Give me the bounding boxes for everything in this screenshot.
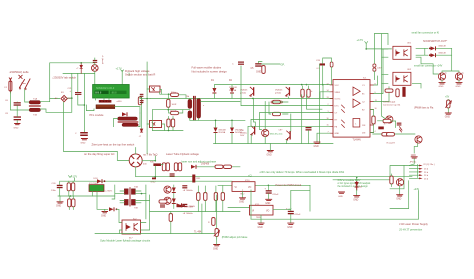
optocoupler IC2 <box>122 219 141 240</box>
wire switch down to T1A <box>25 90 30 103</box>
wire y134 long <box>373 133 415 135</box>
svg-text:GND: GND <box>287 227 292 229</box>
optocoupler OK2 <box>393 69 412 85</box>
wire rail y120.3 <box>190 119 245 121</box>
ground laser section <box>267 151 274 157</box>
transistor Q4 bar <box>279 129 291 140</box>
junction B2 right <box>155 160 157 162</box>
svg-text:JS-HYJT prevention: JS-HYJT prevention <box>399 227 423 231</box>
wire fuse down to T1B <box>10 92 29 110</box>
svg-text:uF30: uF30 <box>117 101 123 103</box>
transformer T3 coils <box>124 186 138 207</box>
junction +17V <box>365 48 367 50</box>
transformer T2A coil <box>118 117 138 120</box>
svg-text:JP2/4x: JP2/4x <box>410 162 418 164</box>
wire x155.3 stub <box>155 156 163 177</box>
fuse F1 <box>5 78 12 93</box>
wire x141.5 vertical <box>141 97 143 129</box>
svg-text:GND: GND <box>265 203 270 205</box>
svg-text:+B 700kHz: +B 700kHz <box>183 190 193 192</box>
ground T5 <box>396 186 403 201</box>
transistor Q3b circle <box>262 102 269 144</box>
junction rail <box>155 176 157 178</box>
svg-text:Power for PWM circuit: Power for PWM circuit <box>276 183 302 187</box>
transistor Q10 <box>386 116 393 123</box>
wire pin5 <box>260 113 331 130</box>
LCD header bar <box>99 100 122 103</box>
svg-text:(PWM adjust pcb fakse: (PWM adjust pcb fakse <box>222 236 248 239</box>
wire lamp chain <box>94 58 96 85</box>
capacitor zener top <box>397 123 402 132</box>
bridge B2 circle <box>129 154 142 167</box>
resistor R33 <box>215 165 223 168</box>
svg-text:DTC: DTC <box>335 106 340 108</box>
ground IC1 <box>314 142 321 148</box>
svg-text:Laser Tube Flyback voltage: Laser Tube Flyback voltage <box>166 152 199 156</box>
wire y109.7 <box>152 109 189 111</box>
power resistor small <box>378 127 384 130</box>
svg-text:1N4148: 1N4148 <box>438 46 446 48</box>
svg-text:470uF: 470uF <box>294 214 301 216</box>
resistor right small <box>208 218 215 226</box>
capacitor C6 <box>5 100 21 110</box>
svg-text:GND: GND <box>335 133 340 135</box>
wire rail y181.2 <box>60 180 232 182</box>
resistor pair y134 <box>382 133 396 145</box>
wire box verticals <box>92 192 108 210</box>
ground IC10 <box>239 191 246 203</box>
wire x374.4 vertical <box>374 34 388 64</box>
resistor pair lower driver <box>167 117 175 131</box>
transistor Q3a bar <box>251 126 256 135</box>
svg-text:GND: GND <box>56 206 61 208</box>
capacitor C8 <box>5 110 21 123</box>
svg-text:GND: GND <box>338 196 343 198</box>
wire B2 right <box>142 160 155 162</box>
capacitor near Q5 <box>182 185 187 188</box>
pot PWM adjust <box>214 229 220 237</box>
wire x251 vertical <box>250 190 252 219</box>
flyback T4 core <box>194 97 196 121</box>
wire rail y84.6 to pin1 <box>306 84 330 86</box>
regulator IC10 box <box>232 180 255 196</box>
transistor Q11 <box>415 136 422 143</box>
wire gnd stub <box>59 196 61 202</box>
svg-text::88.8: :88.8 <box>111 92 117 95</box>
svg-text:SDM1602 LCD-0: SDM1602 LCD-0 <box>96 87 115 90</box>
svg-text:PFL module: PFL module <box>90 113 104 117</box>
lamp LA1 <box>92 65 99 72</box>
transistor Q1 box <box>150 86 161 92</box>
svg-text:3.3V on modular 250V: 3.3V on modular 250V <box>338 179 361 182</box>
resistor row RA <box>197 193 200 201</box>
svg-text:1N4148: 1N4148 <box>438 52 446 54</box>
wire x145.9 vertical <box>145 185 147 219</box>
svg-text:GP,: GP, <box>281 63 285 66</box>
ground Q8 <box>439 80 446 88</box>
wire x140 top <box>139 97 141 99</box>
wire rail y185.3 <box>218 184 310 186</box>
svg-text:GND: GND <box>456 86 461 88</box>
svg-text:1N4005: 1N4005 <box>275 90 283 92</box>
wire x149.6 vertical <box>149 195 151 212</box>
wire bridge minus down <box>63 102 65 151</box>
resistor horizontal R12 <box>273 112 281 115</box>
wire verticals right cluster <box>302 64 323 144</box>
diode D18 <box>94 178 106 183</box>
svg-text:small fan connector +24V: small fan connector +24V <box>414 65 443 68</box>
capacitor pair on x141.5 lower <box>140 100 144 103</box>
transformer T1B <box>29 108 40 116</box>
junction y196 <box>70 195 72 197</box>
junction y109.7 <box>168 109 170 111</box>
wire pin8 to gnd <box>317 133 330 142</box>
resistor pair near R30 <box>162 163 169 171</box>
wire B2 top <box>135 148 137 154</box>
capacitor C26 <box>316 60 325 70</box>
svg-text:Ziiret pre-heat on the top fin: Ziiret pre-heat on the top fine switch <box>92 142 135 146</box>
IC1 pin labels <box>335 85 366 135</box>
transformer T2 core <box>118 121 138 122</box>
svg-text:Switch section and batt R: Switch section and batt R <box>125 73 155 77</box>
wire upper rail y84.6 <box>214 84 306 86</box>
svg-text:GND: GND <box>14 127 19 129</box>
wire diode joins <box>425 48 459 73</box>
resistor horizontal R11 <box>271 100 283 103</box>
transformer T2B coil <box>122 123 138 126</box>
svg-text:VREF: VREF <box>335 92 341 94</box>
svg-text:OUTC: OUTC <box>335 99 341 101</box>
wire pin C1 up <box>374 49 390 102</box>
junction dots y120.3 <box>215 120 217 122</box>
wire long vertical x147 <box>146 62 148 154</box>
wire pin4 long <box>241 98 330 105</box>
LCD module <box>93 85 130 99</box>
svg-text:small fan connector or Kl: small fan connector or Kl <box>412 31 440 34</box>
wire T3 right pins <box>135 191 149 203</box>
wire C30 stubs <box>59 181 61 196</box>
resistor R30 power <box>150 162 161 167</box>
svg-text:T1B: T1B <box>33 115 38 117</box>
svg-text:2kV/3A: 2kV/3A <box>218 131 225 134</box>
svg-text:GND: GND <box>314 146 319 148</box>
svg-text:SOCRSWITCH-OUT*: SOCRSWITCH-OUT* <box>423 40 447 43</box>
op-amp IC1 body <box>333 80 370 138</box>
svg-text:+24V: +24V <box>414 188 420 191</box>
wire T3 left pins <box>112 185 124 203</box>
resistor R32 power <box>177 205 194 209</box>
wire +17V to OK1 <box>366 44 391 49</box>
svg-text:GND: GND <box>258 227 263 229</box>
wire PFL left drop <box>86 105 94 111</box>
SECTION-A AC input <box>5 62 95 151</box>
resistor R31 power vertical <box>192 175 201 183</box>
junction x84.4 y105 <box>84 104 86 106</box>
wire pin2 <box>320 92 330 99</box>
SECTION-E left 7805 <box>51 175 115 210</box>
wire small cluster <box>171 195 217 239</box>
wire rail y101.5 <box>201 101 240 103</box>
SECTION-F bottom right power <box>218 155 435 231</box>
junction T3 right <box>141 193 143 195</box>
capacitor lamp top <box>93 60 97 63</box>
diode chain right of Q5 <box>172 185 176 209</box>
wire Q1 pins <box>147 89 171 94</box>
wire opto pins <box>120 212 150 234</box>
label +17V <box>116 67 124 72</box>
svg-text:pOkde: pOkde <box>275 93 282 95</box>
wire rail y219.2 <box>251 218 418 220</box>
svg-text:on the day filing super AC: on the day filing super AC <box>84 152 115 156</box>
wire resistor row tops <box>198 186 223 212</box>
transistor Q5 <box>164 186 171 193</box>
resistor pair lower <box>68 196 75 210</box>
wire pin7 <box>248 126 330 143</box>
wire C5 to GP <box>258 62 280 65</box>
wire IC11 out <box>273 185 310 211</box>
svg-text:GND: GND <box>445 117 450 119</box>
svg-text:Full wave rectifier diodes: Full wave rectifier diodes <box>192 66 222 70</box>
svg-text:TL494N: TL494N <box>353 140 362 142</box>
svg-text:GND: GND <box>81 142 86 144</box>
wire rail y98.5 start <box>140 98 150 100</box>
svg-text:VCC: VCC <box>335 85 340 87</box>
IC1 left pin stubs <box>330 85 333 133</box>
connector X1 pins <box>409 162 434 181</box>
wire C21 bottom <box>78 95 85 105</box>
svg-text:the included in system design: the included in system design <box>338 185 369 188</box>
resistor right of IC <box>370 110 375 133</box>
SECTION-C flyback and rectifier <box>139 62 334 157</box>
wire DC minus to B2 <box>64 151 130 160</box>
svg-text:10: 10 <box>375 108 377 110</box>
resistor left of T5 <box>390 174 393 187</box>
svg-text:470uF: 470uF <box>272 194 279 196</box>
wire pot to gnd <box>216 237 218 245</box>
resistor vertical 100R <box>167 94 177 110</box>
svg-text:GND: GND <box>151 181 156 183</box>
svg-text:Connector top G4: Connector top G4 <box>383 104 401 107</box>
capacitor near Q6 <box>182 204 187 207</box>
diode D1 <box>211 80 216 98</box>
wire left bus <box>382 34 389 119</box>
resistor vertical small <box>169 214 172 222</box>
ground Q9 <box>456 80 463 88</box>
resistor near C26 <box>330 62 333 67</box>
ground pot <box>445 113 452 119</box>
SECTION-B LCD and PFL <box>75 55 155 156</box>
junction x147 y98.5 <box>146 98 148 100</box>
svg-text:Opto Module Laser flyback pack: Opto Module Laser flyback package circui… <box>100 239 151 243</box>
diode DF2 <box>416 52 452 57</box>
svg-text:GND: GND <box>213 248 218 250</box>
svg-text:13: 13 <box>327 97 329 99</box>
label C10 <box>240 130 248 137</box>
svg-text:+C): +C) <box>248 176 252 178</box>
power resistor dark <box>402 87 405 97</box>
label +17V above IC <box>357 38 368 44</box>
svg-text:VI: VI <box>235 187 238 189</box>
ground below C8 <box>14 124 21 130</box>
resistor small mid <box>396 89 399 97</box>
wire R12 link <box>269 102 288 114</box>
resistor near C5 <box>262 66 265 74</box>
capacitor small x241 <box>232 62 244 66</box>
capacitor C30 <box>51 183 63 192</box>
wire y166.8 <box>197 166 240 168</box>
resistor Feedb <box>169 110 183 115</box>
IC1 arrows left <box>342 105 345 128</box>
IC1 right pin stubs <box>370 85 374 133</box>
wire rail y233.5 <box>95 233 217 235</box>
flyback T4 secondary coil <box>197 99 201 119</box>
flyback T4 primary coil 1 <box>188 99 192 108</box>
wire C21 top <box>77 73 79 92</box>
IC1 flip flop box <box>353 119 360 128</box>
resistor pair above IC <box>373 64 383 71</box>
gnd tick on rail <box>151 178 157 184</box>
ground below C big <box>81 139 88 145</box>
svg-text:T3A: T3A <box>134 186 138 189</box>
svg-text:C-DC(3C)(2): C-DC(3C)(2) <box>383 101 396 103</box>
ground C13 <box>265 194 272 205</box>
svg-text:GND: GND <box>239 202 244 204</box>
wire Q2 pins <box>147 124 164 131</box>
svg-text:GND: GND <box>411 155 416 157</box>
wire LCD verticals <box>96 98 110 100</box>
junction diode top <box>80 62 82 64</box>
wire pin6 <box>251 119 330 126</box>
ground small mid right <box>338 192 345 198</box>
diode D2 <box>229 80 234 98</box>
svg-text:Flyback high voltage: Flyback high voltage <box>125 69 150 73</box>
svg-text:GND: GND <box>267 154 272 156</box>
svg-text:or AC types ignore FAN readjus: or AC types ignore FAN readjust <box>338 182 371 185</box>
transistor Q2 box <box>150 121 162 128</box>
svg-text:(PWM fans to Fla: (PWM fans to Fla <box>414 107 434 110</box>
svg-text:VO: VO <box>266 210 270 212</box>
svg-text:100R: 100R <box>172 104 177 106</box>
wire x84.4 vertical <box>83 73 85 132</box>
resistor R near LCD right <box>138 97 144 105</box>
svg-text:+L 78S05: +L 78S05 <box>186 206 196 208</box>
resistor R34 <box>224 165 232 168</box>
wire PFL right to x140 <box>115 107 140 113</box>
transistor Q5a bar <box>240 87 254 96</box>
capacitor C13 <box>265 185 280 196</box>
switch S1 <box>19 75 30 90</box>
svg-text:↓230/50Hz} kefle: ↓230/50Hz} kefle <box>9 70 30 74</box>
wire Q3a <box>251 98 255 143</box>
optocoupler OK1 <box>393 43 412 60</box>
transistor Q9 <box>455 73 464 81</box>
transformer T1 core <box>29 105 40 106</box>
PFL module bar <box>96 105 115 109</box>
junction x71.8 <box>71 97 73 99</box>
svg-text:+5V: +5V <box>445 97 450 99</box>
wire T1A to bridge <box>40 98 59 101</box>
wire resistor to IC top <box>373 71 375 79</box>
svg-text:+B 700kHz: +B 700kHz <box>183 213 193 215</box>
diode DF1 <box>416 46 452 51</box>
svg-text:laser non anti adjust purchase: laser non anti adjust purchase <box>182 159 217 163</box>
regulator IC9 green box <box>89 185 104 192</box>
SECTION-G TL494 <box>241 34 392 148</box>
capacitor small mid <box>170 173 175 176</box>
svg-text:2kV/3A: 2kV/3A <box>229 89 237 92</box>
resistor loop top <box>378 119 396 127</box>
capacitor mid cluster <box>160 205 165 208</box>
wire vertical x241 <box>240 66 242 98</box>
svg-text:GND: GND <box>353 199 358 201</box>
wire T1B to bridge right <box>40 98 71 112</box>
wire OK2 to Q8 <box>412 57 438 88</box>
svg-text:VI: VI <box>252 210 255 212</box>
wire flyback pins <box>190 98 199 120</box>
svg-text:C30?: C30? <box>377 68 383 70</box>
bridge rectifier B1 <box>55 92 72 102</box>
wire rail y211.5 <box>150 211 240 213</box>
wire T2A left <box>114 119 118 127</box>
transistor T5 <box>396 179 403 186</box>
resistor row RC <box>214 193 217 201</box>
ground PWM <box>213 245 220 251</box>
wire top rail corner <box>50 63 95 99</box>
svg-text:+17V: +17V <box>357 38 364 42</box>
resistor row RB <box>204 193 207 201</box>
svg-text:888.8: 888.8 <box>95 92 102 95</box>
wire T2 right vertical <box>138 113 140 127</box>
wire +17V drop to LCD <box>121 71 123 85</box>
diode DN1 <box>355 177 362 190</box>
capacitor C big left <box>75 132 88 136</box>
svg-text:T1A: T1A <box>33 98 38 101</box>
svg-text:GND: GND <box>256 72 261 74</box>
capacitor C14 <box>286 208 301 217</box>
IC1 pin numbers left <box>327 83 329 133</box>
wire y196 <box>58 195 115 197</box>
svg-text:1IN: 1IN <box>362 125 366 127</box>
svg-text:VO: VO <box>248 187 252 189</box>
svg-text:↓230/50V tab switch: ↓230/50V tab switch <box>52 76 77 80</box>
SECTION-D mid control <box>60 148 412 251</box>
svg-text:2IN: 2IN <box>362 133 366 135</box>
svg-text:↓24V can only deliver 70 Amps.: ↓24V can only deliver 70 Amps. When over… <box>259 170 345 174</box>
wire rail y98.4 long <box>150 97 333 99</box>
regulator IC11 box <box>250 204 274 219</box>
wire x152.4 vertical <box>151 110 153 131</box>
resistor R7ab <box>171 92 187 98</box>
diode x141.5 down <box>139 129 143 138</box>
diode D3 <box>214 120 227 143</box>
ground bottom left <box>101 212 108 218</box>
wire connector to rail <box>417 165 419 178</box>
diode D8 bottom left <box>109 207 117 211</box>
svg-text:GND: GND <box>101 215 106 217</box>
ground C14 <box>287 214 294 229</box>
wire B2 bottom to rail <box>135 167 137 177</box>
diode D4 <box>230 120 243 143</box>
svg-text:TL-494: TL-494 <box>194 232 202 234</box>
wire y130.5 <box>152 130 183 132</box>
trimmer pot right <box>446 100 452 113</box>
diode small top <box>76 63 82 74</box>
capacitor C5 <box>251 63 262 73</box>
wire C26 loop <box>323 58 332 85</box>
resistor pair R35 R36 <box>67 181 75 196</box>
transistor Q6a bar <box>275 87 290 96</box>
ground connector top <box>409 155 417 166</box>
